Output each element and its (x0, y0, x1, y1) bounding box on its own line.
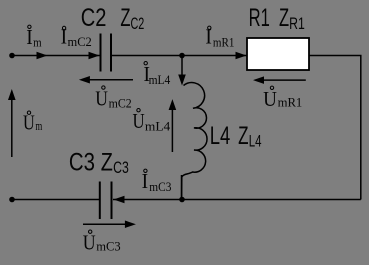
wire L4 top lead (181, 56, 183, 79)
svg-text:m: m (33, 35, 42, 50)
svg-text:C3: C3 (113, 158, 129, 177)
svg-text:U: U (83, 231, 96, 255)
capacitor C2 (101, 34, 112, 72)
svg-text:mR1: mR1 (213, 35, 235, 50)
current arrow I_mC3 (114, 196, 125, 204)
svg-text:I: I (26, 25, 33, 49)
svg-text:mC2: mC2 (109, 95, 132, 110)
current arrow I_mL4 (178, 75, 186, 86)
svg-text:I: I (205, 25, 212, 49)
svg-text:Z: Z (279, 4, 289, 32)
svg-text:U: U (23, 110, 35, 134)
voltage arrow U_mC3 (83, 221, 136, 229)
svg-text:mC3: mC3 (96, 238, 120, 253)
svg-text:I: I (61, 25, 68, 49)
voltage arrow U_mC2 (79, 76, 133, 84)
label I_mC2 (61, 25, 92, 50)
wire bottom (right corner to C3) (113, 199, 361, 201)
voltage arrow U_mL4 (169, 99, 177, 152)
capacitor C3 (100, 182, 112, 220)
svg-text:U: U (95, 87, 108, 111)
svg-text:Z: Z (238, 122, 248, 150)
svg-text:U: U (263, 87, 277, 111)
label C3 Z_C3 (69, 149, 129, 178)
resistor R1 (247, 38, 309, 70)
node top-left (9, 53, 15, 59)
current arrow I_mR1 (236, 52, 247, 60)
label I_mC3 (142, 169, 172, 194)
label I_m (26, 25, 41, 49)
svg-text:mL4: mL4 (145, 118, 171, 133)
wire L4 bottom lead (181, 175, 183, 200)
svg-text:mR1: mR1 (278, 95, 303, 110)
node junction top (L4 branch) (179, 53, 185, 59)
label R1 Z_R1 (249, 4, 305, 33)
node junction bottom (L4 branch) (179, 197, 185, 203)
svg-text:U: U (133, 109, 145, 133)
wire top-left (node to C2) (12, 55, 100, 57)
wire C3 to bottom-left node (12, 199, 100, 201)
inductor L4 (182, 83, 207, 199)
voltage arrow U_mR1 (253, 76, 306, 84)
node bottom-left (9, 197, 15, 203)
label U_mC3 (83, 230, 121, 255)
voltage arrow U_m (8, 89, 16, 157)
current arrow I_mC2 (89, 52, 100, 60)
label I_mR1 (205, 25, 234, 50)
label U_mR1 (263, 86, 302, 111)
svg-text:L4: L4 (249, 131, 262, 150)
svg-text:C3: C3 (69, 149, 95, 177)
svg-text:R1: R1 (249, 4, 270, 32)
svg-text:mC3: mC3 (149, 179, 171, 194)
label L4 Z_L4 (210, 122, 262, 151)
svg-text:mC2: mC2 (68, 34, 92, 49)
svg-text:mL4: mL4 (149, 72, 171, 87)
svg-text:Z: Z (120, 4, 130, 32)
label C2 Z_C2 (81, 4, 145, 33)
wire C2 to R1 (112, 55, 248, 57)
svg-text:R1: R1 (289, 14, 305, 33)
wire R1 to right corner and down (309, 56, 361, 200)
label U_m (23, 110, 42, 134)
label I_mL4 (144, 62, 171, 88)
current arrow I_m (37, 52, 48, 60)
svg-text:C2: C2 (131, 14, 145, 33)
svg-text:m: m (35, 118, 42, 133)
label U_mL4 (133, 109, 171, 134)
svg-text:Z: Z (101, 149, 113, 177)
label U_mC2 (95, 86, 131, 111)
svg-text:C2: C2 (81, 4, 107, 32)
svg-text:L4: L4 (210, 122, 231, 150)
svg-text:I: I (142, 169, 149, 193)
